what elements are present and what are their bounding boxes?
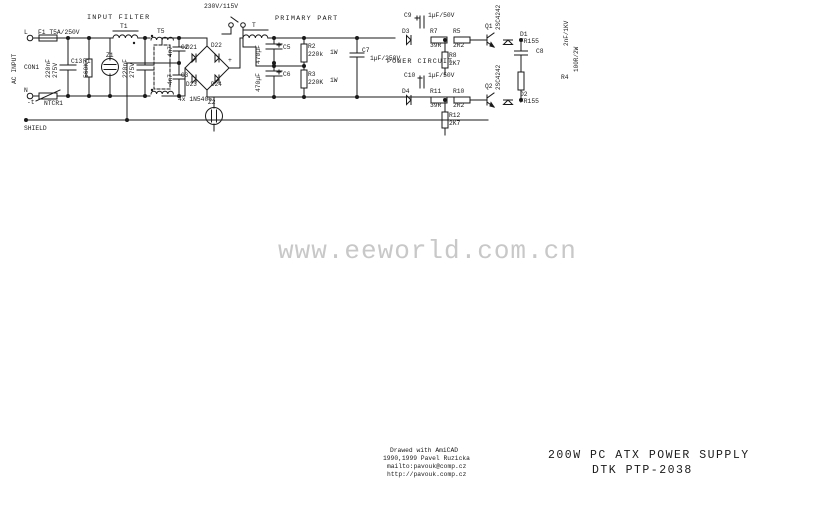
svg-text:Drawed with AmiCAD: Drawed with AmiCAD <box>390 447 458 454</box>
wire shield tap <box>127 63 179 120</box>
svg-text:275V: 275V <box>129 63 136 78</box>
svg-text:R2: R2 <box>308 43 316 50</box>
svg-text:+: + <box>228 57 232 64</box>
svg-text:D24: D24 <box>211 81 222 88</box>
svg-text:R8: R8 <box>449 52 457 59</box>
svg-text:220nF: 220nF <box>122 59 129 78</box>
svg-text:FR155: FR155 <box>520 98 539 105</box>
svg-text:275V: 275V <box>52 63 59 78</box>
svg-text:2SC4242: 2SC4242 <box>495 4 502 30</box>
svg-text:T: T <box>252 22 256 29</box>
svg-text:D22: D22 <box>211 42 222 49</box>
svg-text:R5: R5 <box>453 28 461 35</box>
svg-text:R11: R11 <box>430 88 442 95</box>
svg-text:2K7: 2K7 <box>449 60 461 67</box>
svg-text:PRIMARY PART: PRIMARY PART <box>275 15 338 23</box>
wire N line <box>57 95 150 97</box>
svg-text:2K7: 2K7 <box>449 120 461 127</box>
svg-text:T5: T5 <box>157 28 165 35</box>
svg-text:C6: C6 <box>283 71 291 78</box>
svg-text:AC INPUT: AC INPUT <box>11 54 18 84</box>
wire primary top bus <box>300 37 395 39</box>
svg-text:C10: C10 <box>404 72 416 79</box>
wire L line <box>57 37 113 39</box>
svg-text:INPUT FILTER: INPUT FILTER <box>87 14 150 22</box>
svg-text:Q2: Q2 <box>485 83 493 90</box>
svg-text:1990,1999 Pavel Ruzicka: 1990,1999 Pavel Ruzicka <box>383 455 470 462</box>
wire bridge + to T <box>229 38 243 68</box>
svg-text:C8: C8 <box>536 48 544 55</box>
svg-text:C13: C13 <box>71 58 83 65</box>
wire mid node <box>255 47 257 66</box>
svg-text:230V/115V: 230V/115V <box>204 3 238 10</box>
svg-text:R10: R10 <box>453 88 465 95</box>
svg-text:220K: 220K <box>308 79 323 86</box>
svg-text:CON1: CON1 <box>24 64 39 71</box>
svg-text:D23: D23 <box>186 81 197 88</box>
svg-text:Q1: Q1 <box>485 23 493 30</box>
svg-text:2nF/1KV: 2nF/1KV <box>563 20 570 46</box>
svg-text:R7: R7 <box>430 28 438 35</box>
svg-text:-t: -t <box>27 99 35 106</box>
svg-text:T1: T1 <box>120 23 128 30</box>
svg-text:DTK PTP-2038: DTK PTP-2038 <box>592 464 693 477</box>
svg-text:R3: R3 <box>308 71 316 78</box>
svg-text:C5: C5 <box>283 44 291 51</box>
svg-text:D3: D3 <box>402 28 410 35</box>
wire bottom primary bus <box>206 96 208 98</box>
svg-text:Z2: Z2 <box>208 99 216 106</box>
svg-text:D1: D1 <box>520 31 528 38</box>
svg-text:2SC4242: 2SC4242 <box>495 64 502 90</box>
svg-text:1W: 1W <box>330 77 338 84</box>
bridge diamond with D21-D24 <box>185 46 229 90</box>
wire bridge AC in <box>185 37 207 39</box>
svg-text:NTCR1: NTCR1 <box>44 100 63 107</box>
svg-text:1µF/50V: 1µF/50V <box>428 12 455 19</box>
svg-text:D21: D21 <box>186 44 197 51</box>
svg-text:SHIELD: SHIELD <box>24 125 47 132</box>
svg-text:220nF: 220nF <box>45 59 52 78</box>
svg-text:N: N <box>24 87 28 94</box>
svg-text:1µF/250V: 1µF/250V <box>370 55 400 62</box>
svg-text:220k: 220k <box>308 51 323 58</box>
svg-text:R4: R4 <box>561 74 569 81</box>
svg-text:D4: D4 <box>402 88 410 95</box>
svg-text:http://pavouk.comp.cz: http://pavouk.comp.cz <box>387 471 467 478</box>
svg-text:470µF: 470µF <box>255 73 262 92</box>
svg-text:C9: C9 <box>404 12 412 19</box>
svg-text:200W PC ATX POWER SUPPLY: 200W PC ATX POWER SUPPLY <box>548 449 750 462</box>
wire primary bottom bus <box>207 96 460 98</box>
svg-text:R12: R12 <box>449 112 461 119</box>
wire shield bus <box>26 119 488 121</box>
svg-text:1µF/50V: 1µF/50V <box>428 72 455 79</box>
svg-text:mailto:pavouk@comp.cz: mailto:pavouk@comp.cz <box>387 463 467 470</box>
svg-text:100R/2W: 100R/2W <box>573 46 580 72</box>
thermistor NTCR1 <box>33 95 39 97</box>
svg-text:L: L <box>24 29 28 36</box>
svg-text:www.eeworld.com.cn: www.eeworld.com.cn <box>278 236 577 266</box>
svg-text:1W: 1W <box>330 49 338 56</box>
svg-text:FR155: FR155 <box>520 38 539 45</box>
wire from T5 to bridge <box>162 37 185 39</box>
wire T to C5 <box>268 37 300 39</box>
